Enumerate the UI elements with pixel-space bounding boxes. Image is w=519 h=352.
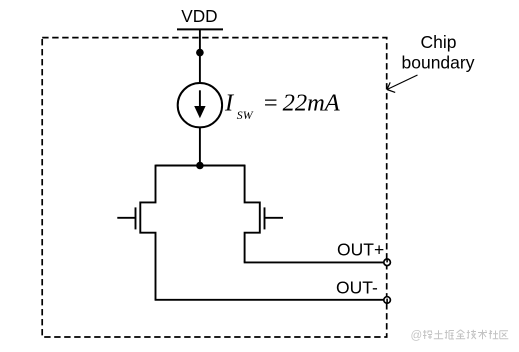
transistor M1 gate lead	[117, 217, 135, 219]
金	[456, 330, 465, 339]
node dot on VDD wire	[196, 49, 204, 57]
pointer arrow to boundary	[387, 75, 418, 92]
svg-text:I: I	[224, 90, 235, 117]
terminal OUT-	[384, 297, 391, 304]
transistor M2 gate lead	[265, 217, 284, 219]
svg-text:22mA: 22mA	[283, 90, 341, 117]
wire VDD to current source	[199, 29, 201, 83]
wire current source to tail node	[199, 127, 201, 165]
node dot at tail	[196, 162, 204, 170]
技	[467, 330, 476, 339]
terminal OUT+	[384, 259, 391, 266]
区	[500, 331, 509, 339]
svg-text:OUT-: OUT-	[336, 277, 378, 297]
svg-text:OUT+: OUT+	[337, 239, 384, 259]
wire OUT-	[155, 299, 384, 301]
wire OUT+	[244, 261, 384, 263]
chip boundary dashed box	[42, 38, 387, 337]
svg-text:@: @	[411, 330, 423, 342]
svg-text:VDD: VDD	[181, 6, 217, 26]
掘	[445, 330, 454, 339]
svg-text:SW: SW	[237, 108, 254, 122]
transistor M1 gate bar	[135, 207, 137, 229]
current source I_SW	[178, 83, 222, 127]
watermark	[411, 330, 509, 342]
transistor M2 gate bar	[264, 207, 266, 229]
VDD rail bar	[177, 28, 223, 30]
transistor M1 (left) channel/drain/source	[140, 165, 155, 300]
术	[478, 330, 487, 339]
top rail wire	[156, 165, 246, 167]
土	[434, 330, 443, 338]
稀	[423, 330, 432, 339]
label I_SW = 22mA	[224, 90, 341, 123]
svg-text:boundary: boundary	[402, 53, 475, 73]
svg-text:=: =	[262, 90, 279, 117]
Chip boundary label	[402, 32, 475, 72]
transistor M2 (right) channel/drain/source	[245, 165, 260, 263]
社	[489, 330, 499, 339]
svg-text:Chip: Chip	[421, 32, 457, 52]
